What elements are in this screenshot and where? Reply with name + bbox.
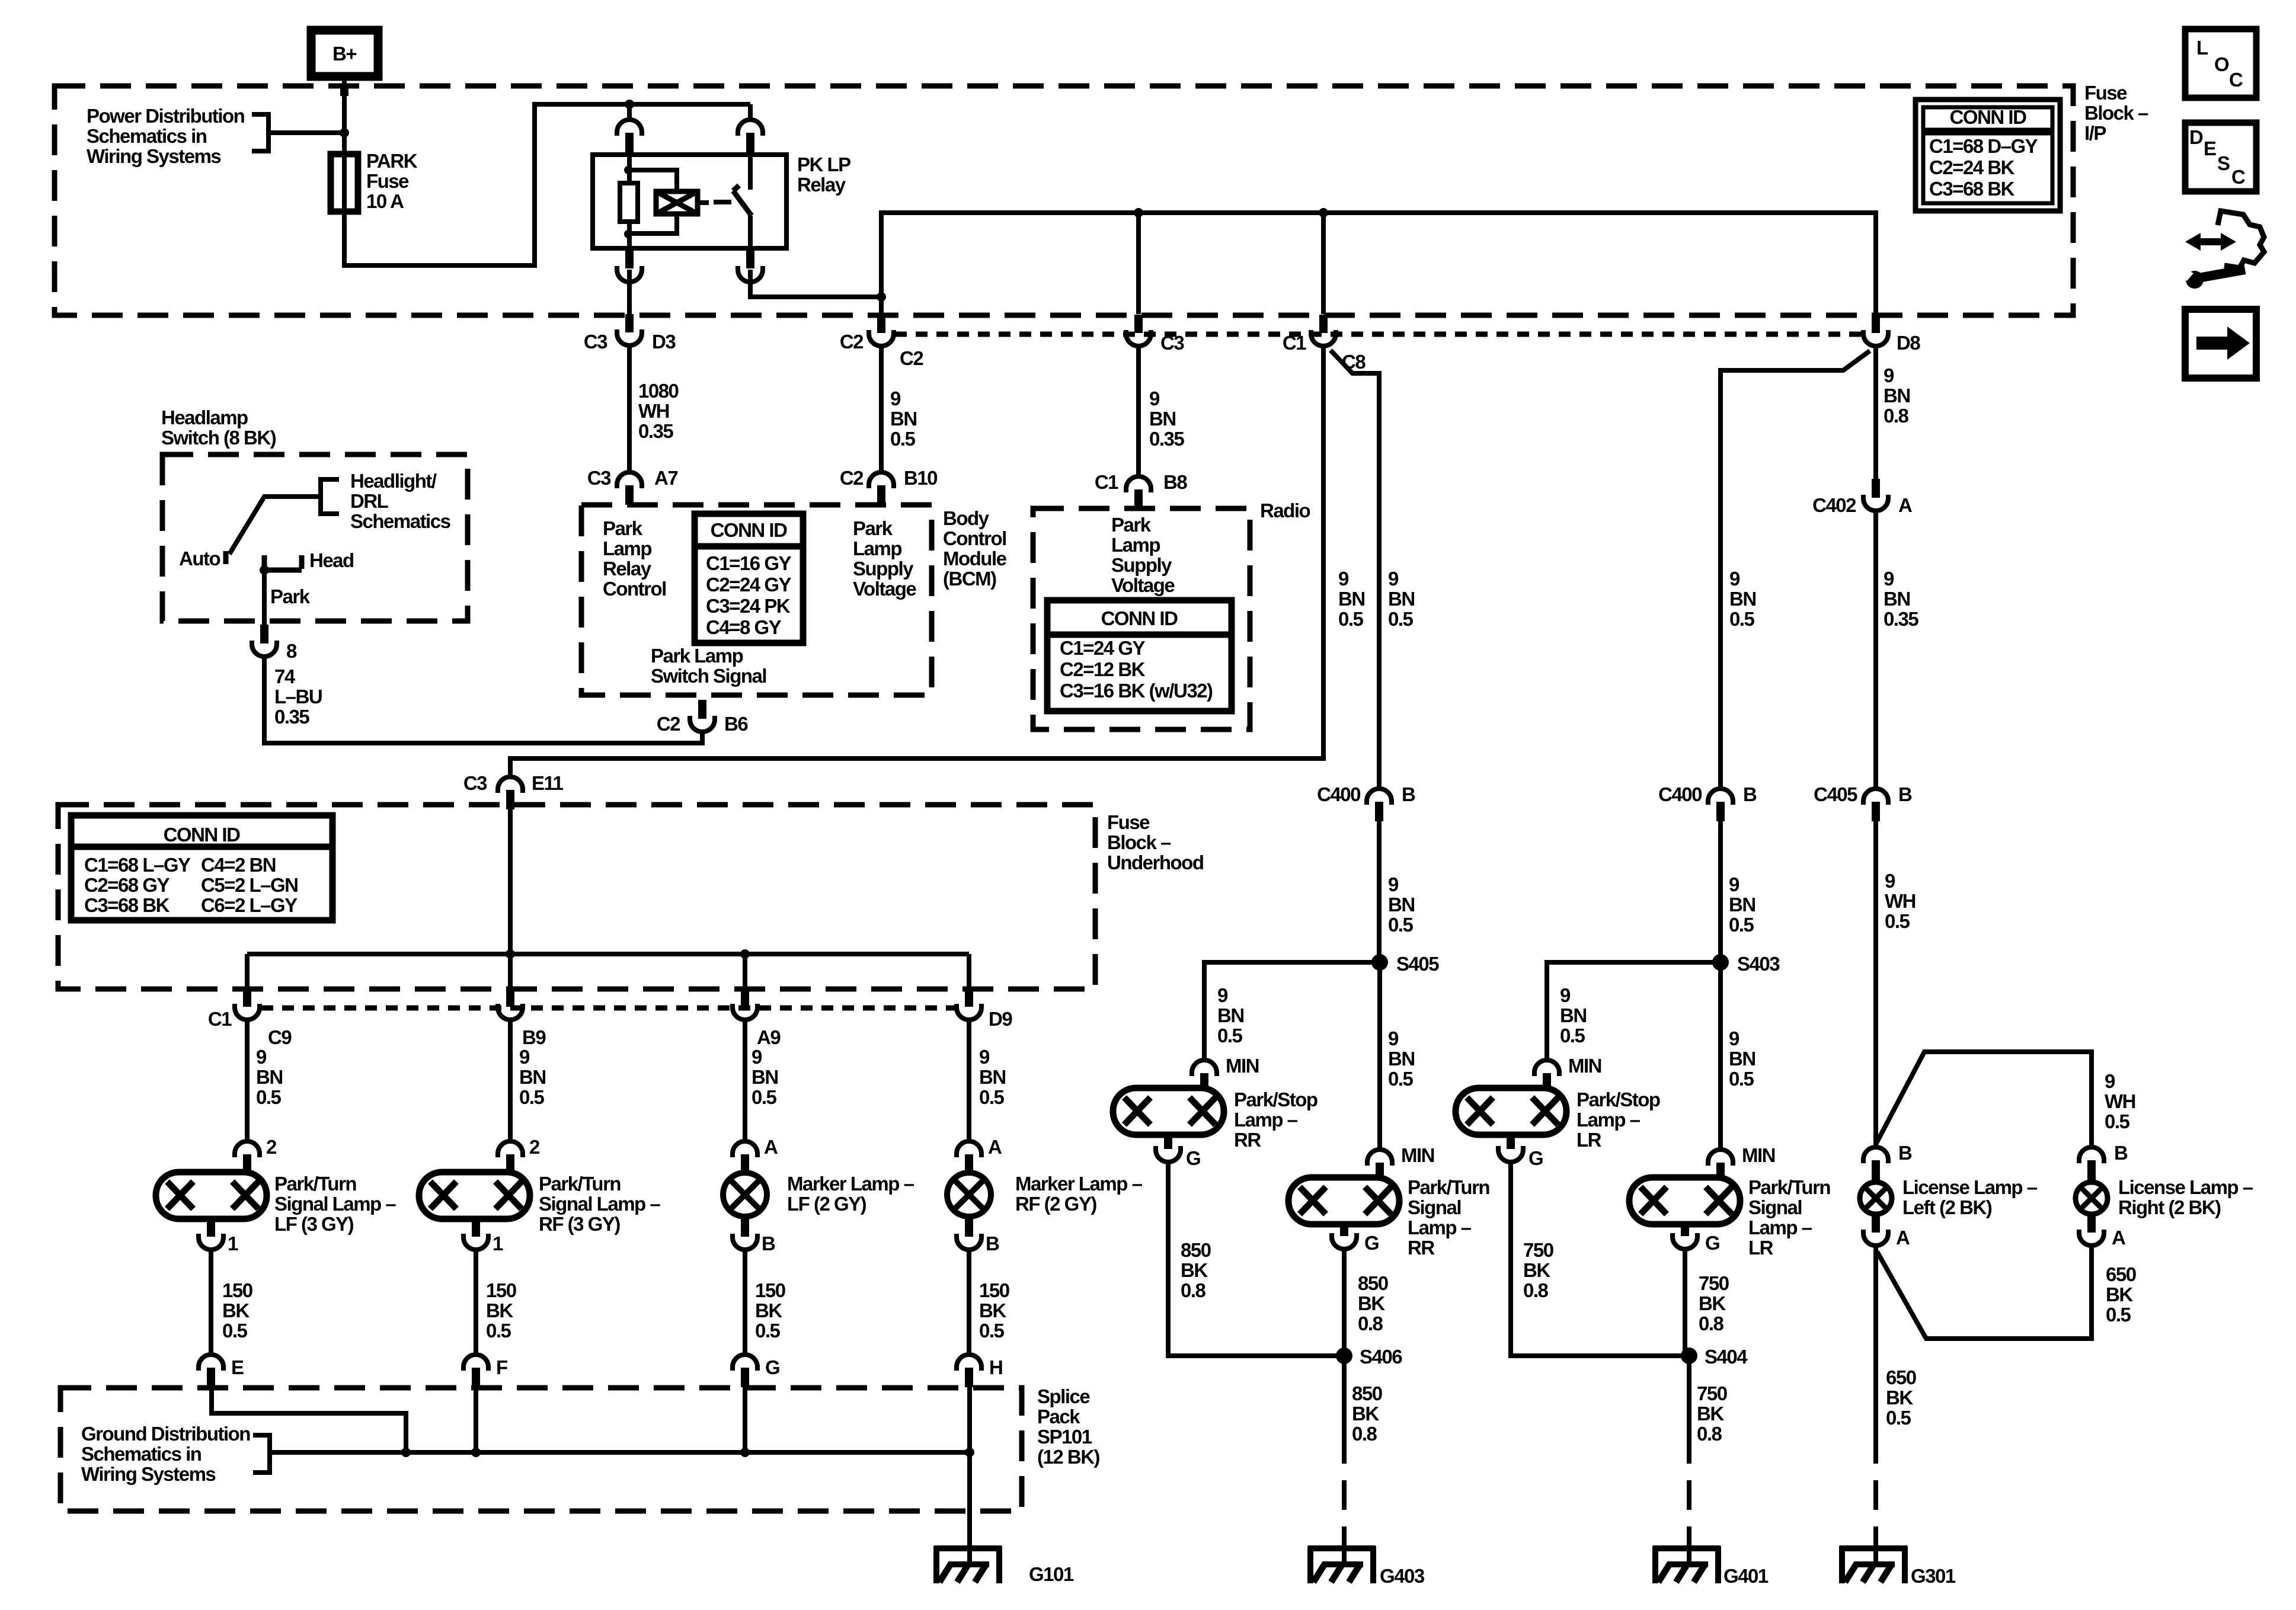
svg-text:9: 9 — [1884, 364, 1894, 386]
svg-text:C4=2 BN: C4=2 BN — [201, 854, 276, 876]
switch contacts of PK LP relay — [748, 155, 753, 190]
svg-text:9: 9 — [1388, 873, 1399, 895]
connector at relay pin 86 (coil supply) — [617, 120, 642, 136]
power distribution / fuse block I-P dashed box — [55, 86, 2073, 315]
svg-text:0.8: 0.8 — [1884, 405, 1909, 427]
svg-text:B6: B6 — [724, 713, 748, 735]
svg-text:Schematics in: Schematics in — [81, 1443, 202, 1465]
svg-text:BN: BN — [1729, 1048, 1755, 1070]
svg-text:F: F — [496, 1356, 507, 1378]
svg-text:Park/Stop: Park/Stop — [1234, 1089, 1318, 1110]
svg-text:0.5: 0.5 — [1388, 608, 1414, 630]
connector B of license lamp right — [2079, 1147, 2104, 1163]
resistor inside PK LP relay — [620, 183, 638, 222]
dotted connector face line of fuse block I/P bottom — [895, 332, 1862, 337]
svg-text:0.5: 0.5 — [256, 1086, 282, 1108]
svg-text:850: 850 — [1181, 1239, 1211, 1261]
splice pack SP101 dashed box — [60, 1388, 1022, 1511]
svg-text:C3: C3 — [1160, 332, 1184, 354]
wire 150 BK ground lead of park/turn signal lamp RF — [474, 1249, 478, 1355]
wire relay coil branch upper node — [627, 155, 632, 183]
svg-text:Fuse: Fuse — [366, 170, 409, 192]
svg-text:Park/Stop: Park/Stop — [1576, 1089, 1660, 1110]
svg-text:750: 750 — [1523, 1239, 1553, 1261]
svg-text:G401: G401 — [1723, 1565, 1769, 1587]
svg-text:BN: BN — [1560, 1004, 1587, 1026]
svg-text:Park: Park — [603, 517, 643, 539]
connector H at splice pack — [957, 1355, 981, 1371]
node splice S405 — [1371, 954, 1388, 971]
svg-text:BK: BK — [222, 1299, 250, 1321]
svg-text:9: 9 — [1729, 1028, 1739, 1049]
ground G403 — [1308, 1545, 1376, 1551]
svg-text:License Lamp –: License Lamp – — [1902, 1176, 2038, 1198]
svg-text:C3=68 BK: C3=68 BK — [1929, 178, 2015, 200]
wire drop to D9 — [967, 954, 971, 988]
svg-text:C1=68 L–GY: C1=68 L–GY — [84, 854, 191, 876]
svg-text:Switch Signal: Switch Signal — [651, 665, 766, 687]
svg-text:0.5: 0.5 — [1560, 1025, 1585, 1046]
svg-text:Park/Turn: Park/Turn — [539, 1173, 621, 1195]
svg-text:C2=68 GY: C2=68 GY — [84, 874, 170, 896]
svg-text:E: E — [231, 1356, 244, 1378]
svg-text:B8: B8 — [1163, 471, 1187, 493]
lamp marker lamp RF — [947, 1173, 991, 1217]
svg-text:Auto: Auto — [179, 548, 220, 569]
svg-text:CONN ID: CONN ID — [711, 519, 788, 541]
svg-text:Lamp –: Lamp – — [1234, 1109, 1298, 1131]
wire park signal to switch connector — [262, 570, 267, 625]
svg-text:DRL: DRL — [350, 490, 389, 512]
svg-text:0.5: 0.5 — [1729, 608, 1755, 630]
connector pin 2 of park/turn signal lamp RF — [498, 1141, 523, 1157]
svg-text:1: 1 — [228, 1233, 238, 1254]
svg-text:C9: C9 — [268, 1026, 292, 1048]
svg-text:850: 850 — [1352, 1382, 1382, 1404]
connector G at splice pack — [733, 1355, 757, 1371]
svg-text:9: 9 — [1388, 568, 1399, 590]
svg-text:Underhood: Underhood — [1107, 852, 1203, 873]
svg-text:D3: D3 — [652, 331, 676, 353]
svg-text:0.35: 0.35 — [1149, 428, 1184, 450]
wire C1 radio feed down and across to E11 — [510, 346, 1323, 777]
svg-text:Signal: Signal — [1748, 1196, 1802, 1218]
pin where B+ wire enters fuse block box — [340, 87, 348, 96]
svg-text:650: 650 — [1886, 1366, 1916, 1388]
svg-text:Park/Turn: Park/Turn — [274, 1173, 356, 1195]
svg-text:BN: BN — [1388, 588, 1415, 610]
wire park/turn LR ground lead to S404 — [1683, 1249, 1687, 1356]
wire B+ feed from battery through PARK fuse — [344, 76, 750, 265]
svg-text:Marker Lamp –: Marker Lamp – — [787, 1173, 914, 1195]
wire park/turn RR ground lead to S406 — [1342, 1249, 1347, 1356]
wire relay output to park lamp supply node — [750, 270, 881, 297]
node relay coil top junction — [624, 166, 632, 174]
connector pin A of marker lamp RF — [957, 1141, 981, 1157]
svg-text:H: H — [989, 1356, 1002, 1378]
coil symbol of PK LP relay (box with X) — [656, 191, 698, 214]
wire 750 BK from park/stop LR to S404 — [1511, 1161, 1689, 1356]
svg-text:C8: C8 — [1342, 351, 1366, 373]
svg-text:WH: WH — [1885, 890, 1916, 912]
wire 850 BK from park/stop RR to S406 — [1168, 1161, 1344, 1356]
svg-text:0.5: 0.5 — [752, 1086, 777, 1108]
wire 150 BK ground lead of marker lamp RF — [967, 1249, 971, 1355]
svg-text:S405: S405 — [1396, 953, 1439, 975]
svg-text:B: B — [1743, 783, 1757, 805]
svg-text:BK: BK — [1699, 1292, 1726, 1314]
bracket to ground distribution schematics — [253, 1435, 270, 1473]
svg-text:D9: D9 — [989, 1008, 1012, 1030]
svg-text:BN: BN — [1388, 894, 1415, 916]
svg-text:RF (3 GY): RF (3 GY) — [539, 1213, 620, 1235]
svg-text:Switch (8 BK): Switch (8 BK) — [161, 427, 276, 449]
svg-text:E11: E11 — [532, 772, 564, 794]
svg-text:Ground Distribution: Ground Distribution — [81, 1423, 250, 1445]
svg-text:BN: BN — [1884, 588, 1910, 610]
wire S-splice branch to park/stop lamp RR — [1204, 962, 1380, 1060]
wire C405 to license lamp left — [1873, 821, 1878, 1148]
svg-text:WH: WH — [2105, 1090, 2135, 1112]
svg-text:Schematics in: Schematics in — [87, 125, 207, 147]
wire drop to A9 — [743, 954, 747, 988]
relay PK LP box outline — [593, 155, 786, 248]
svg-text:C405: C405 — [1814, 783, 1857, 805]
connector A of license lamp right — [2087, 1214, 2096, 1233]
svg-text:RF (2 GY): RF (2 GY) — [1015, 1193, 1096, 1215]
svg-text:0.5: 0.5 — [1729, 1068, 1754, 1090]
svg-text:Lamp –: Lamp – — [1748, 1217, 1812, 1238]
bracket reference to power distribution schematics — [252, 114, 268, 151]
contact Auto — [223, 551, 229, 564]
connector A7 park lamp relay control input — [617, 472, 642, 488]
headlamp switch blade wire — [229, 497, 321, 554]
svg-text:C2=12 BK: C2=12 BK — [1060, 658, 1146, 680]
node bus tap to radio branch — [1319, 208, 1328, 217]
svg-text:2: 2 — [529, 1136, 540, 1158]
svg-text:C2=24 BK: C2=24 BK — [1929, 156, 2015, 178]
wire F lead into bus — [474, 1387, 478, 1452]
svg-text:C1: C1 — [1283, 332, 1306, 354]
svg-text:B9: B9 — [522, 1026, 546, 1048]
svg-text:G301: G301 — [1911, 1565, 1956, 1587]
node splice S406 — [1336, 1347, 1352, 1364]
svg-text:CONN ID: CONN ID — [1950, 106, 2027, 128]
node splice S403 — [1712, 954, 1729, 971]
wire C8 jog to C400 column — [1331, 350, 1379, 789]
wire 150 BK ground lead of marker lamp LF — [743, 1249, 747, 1355]
svg-text:Schematics: Schematics — [350, 510, 450, 532]
svg-text:Pack: Pack — [1037, 1406, 1080, 1427]
svg-text:0.35: 0.35 — [638, 420, 673, 442]
svg-text:A: A — [2112, 1227, 2125, 1249]
svg-text:MIN: MIN — [1401, 1144, 1434, 1166]
CONN ID table of fuse block I/P — [1916, 100, 2060, 211]
svg-text:BN: BN — [752, 1066, 778, 1088]
svg-text:9: 9 — [1388, 1028, 1399, 1049]
svg-text:9: 9 — [979, 1046, 990, 1068]
wire 74 L-BU from headlamp switch to BCM B6 — [264, 655, 702, 743]
connector B9 to RF park lamp — [506, 988, 514, 1007]
svg-text:BK: BK — [486, 1299, 513, 1321]
svg-text:BN: BN — [1884, 385, 1910, 406]
svg-text:0.8: 0.8 — [1352, 1423, 1377, 1445]
wire S404 to ground — [1687, 1356, 1691, 1564]
svg-text:Block –: Block – — [2084, 102, 2148, 124]
svg-text:C400: C400 — [1317, 783, 1360, 805]
svg-text:BK: BK — [1523, 1259, 1550, 1281]
svg-text:9: 9 — [752, 1046, 762, 1068]
svg-text:G: G — [1705, 1232, 1719, 1254]
wire C400 LR to splice S403 — [1718, 821, 1723, 962]
connector G of park/stop lamp RR — [1164, 1135, 1172, 1149]
connector pin 1 of park/turn signal lamp RF — [472, 1219, 480, 1237]
connector MIN of park/turn lamp LR — [1708, 1150, 1733, 1166]
node junction on relay supply wire at left pin — [625, 100, 634, 109]
svg-text:C2=24 GY: C2=24 GY — [706, 574, 791, 596]
svg-text:LF (2 GY): LF (2 GY) — [787, 1193, 866, 1215]
svg-text:MIN: MIN — [1742, 1144, 1775, 1166]
svg-text:Block –: Block – — [1107, 831, 1171, 853]
svg-text:C3=16 BK (w/U32): C3=16 BK (w/U32) — [1060, 680, 1213, 702]
connector C3 park lamp supply to radio — [1134, 315, 1143, 333]
svg-text:Supply: Supply — [853, 558, 914, 580]
svg-text:0.35: 0.35 — [1884, 608, 1918, 630]
node S junction of park lamp supply at fuse block — [877, 292, 886, 302]
svg-text:Voltage: Voltage — [1111, 574, 1175, 596]
svg-text:BN: BN — [890, 408, 917, 430]
bracket to Headlight/DRL schematics — [321, 479, 339, 514]
lamp park/stop RR — [1113, 1088, 1224, 1135]
svg-text:9: 9 — [1729, 873, 1739, 895]
node bus junction at E11 drop — [506, 949, 515, 959]
node bus tap to BCM supply branch — [1134, 208, 1143, 217]
svg-text:150: 150 — [222, 1279, 252, 1301]
svg-text:C: C — [2229, 69, 2243, 91]
svg-text:BN: BN — [1217, 1004, 1244, 1026]
lamp park/turn signal LR — [1629, 1177, 1740, 1224]
connector B of license lamp left — [1863, 1147, 1888, 1163]
svg-text:Lamp: Lamp — [603, 537, 651, 559]
svg-text:Headlight/: Headlight/ — [350, 470, 437, 492]
svg-text:0.8: 0.8 — [1523, 1279, 1549, 1301]
svg-text:8: 8 — [286, 640, 297, 662]
svg-text:C3=68 BK: C3=68 BK — [84, 894, 170, 916]
svg-text:150: 150 — [755, 1279, 785, 1301]
ground G301 — [1840, 1545, 1907, 1551]
icon service body outline — [2218, 211, 2264, 268]
svg-text:9: 9 — [256, 1046, 267, 1068]
svg-text:Splice: Splice — [1037, 1385, 1090, 1407]
connector E11 underhood fuse block input — [498, 777, 523, 793]
svg-text:Control: Control — [603, 578, 666, 600]
contact Park tick — [262, 555, 267, 570]
svg-text:LR: LR — [1576, 1129, 1602, 1151]
svg-text:C6=2 L–GY: C6=2 L–GY — [201, 894, 298, 916]
svg-text:1080: 1080 — [638, 380, 679, 402]
node bus junction F — [471, 1448, 481, 1457]
svg-text:9: 9 — [890, 388, 901, 409]
wire 9 BN feed to park/turn signal lamp RF — [508, 1020, 513, 1143]
wire C3 branch through connector — [1136, 213, 1141, 314]
svg-text:G: G — [1528, 1147, 1543, 1169]
svg-text:Control: Control — [943, 527, 1006, 549]
svg-text:D: D — [2189, 126, 2203, 148]
radio dashed box — [1033, 508, 1250, 729]
relay pin 85 connector (coil ground side) — [625, 248, 634, 268]
svg-text:S404: S404 — [1705, 1346, 1748, 1368]
svg-text:C1=16 GY: C1=16 GY — [706, 552, 791, 574]
svg-text:C3: C3 — [587, 467, 611, 489]
lamp park/turn signal lamp RF — [419, 1172, 530, 1219]
svg-text:L–BU: L–BU — [274, 686, 322, 708]
svg-text:L: L — [2196, 37, 2208, 59]
svg-text:Fuse: Fuse — [1107, 811, 1150, 833]
svg-text:Power Distribution: Power Distribution — [87, 105, 245, 127]
svg-text:BN: BN — [979, 1066, 1006, 1088]
svg-text:0.8: 0.8 — [1699, 1313, 1724, 1334]
svg-text:Relay: Relay — [603, 558, 652, 580]
connector G of park/stop lamp LR — [1507, 1135, 1515, 1149]
svg-text:A9: A9 — [757, 1026, 781, 1048]
svg-text:CONN ID: CONN ID — [164, 824, 241, 846]
svg-text:C1=68 D–GY: C1=68 D–GY — [1929, 135, 2038, 157]
lamp park/turn signal RR — [1288, 1177, 1399, 1224]
svg-text:Wiring Systems: Wiring Systems — [81, 1463, 215, 1485]
wire relay resistor bottom to box bottom — [627, 222, 632, 248]
connector G of park/turn lamp LR — [1681, 1224, 1689, 1236]
connector pin 2 of park/turn signal lamp LF — [235, 1141, 260, 1157]
connector B8 radio park lamp supply — [1126, 476, 1151, 492]
dotted connector face line of underhood block bottom — [261, 1006, 955, 1011]
svg-text:BK: BK — [1352, 1403, 1379, 1425]
svg-text:9: 9 — [1149, 388, 1160, 409]
svg-text:0.35: 0.35 — [274, 706, 309, 728]
svg-text:0.8: 0.8 — [1697, 1423, 1722, 1445]
relay pin 87 connector (switch output) — [746, 248, 754, 268]
svg-text:(BCM): (BCM) — [943, 568, 996, 590]
svg-text:BK: BK — [2106, 1283, 2133, 1305]
connector D8 fuse block output — [1872, 315, 1880, 333]
connector C1-C9 to LF park lamp — [243, 988, 251, 1007]
svg-text:I/P: I/P — [2084, 122, 2106, 144]
svg-text:Lamp: Lamp — [1111, 534, 1160, 556]
wire C1 branch through connector — [1321, 213, 1326, 314]
svg-text:A7: A7 — [654, 467, 677, 489]
connector at relay pin 30 (switch supply) — [738, 120, 763, 136]
svg-text:0.5: 0.5 — [1388, 914, 1414, 936]
svg-text:2: 2 — [266, 1136, 277, 1158]
wire license right ground joining left — [1877, 1246, 2092, 1339]
svg-text:B: B — [1402, 783, 1415, 805]
connector pin 1 of park/turn signal lamp LF — [207, 1219, 215, 1237]
node park output junction — [260, 565, 269, 575]
svg-text:Marker Lamp –: Marker Lamp – — [1015, 1173, 1143, 1195]
svg-text:BN: BN — [1338, 588, 1365, 610]
ground G101 — [934, 1545, 1002, 1551]
svg-text:LR: LR — [1748, 1237, 1774, 1259]
connector A9 to LF marker lamp — [741, 988, 749, 1007]
connector pin B of marker lamp LF — [741, 1216, 749, 1237]
wire 9 BN feed to marker lamp LF — [743, 1020, 747, 1143]
svg-text:Supply: Supply — [1111, 554, 1172, 576]
wire 150 BK ground lead of park/turn signal lamp LF — [209, 1249, 213, 1355]
ground G401 — [1653, 1545, 1721, 1551]
svg-text:Park/Turn: Park/Turn — [1748, 1176, 1830, 1198]
svg-text:A: A — [988, 1136, 1002, 1158]
svg-text:C5=2 L–GN: C5=2 L–GN — [201, 874, 298, 896]
connector B10 park lamp supply voltage input — [869, 472, 894, 488]
svg-text:E: E — [2204, 137, 2216, 159]
wire branch to license lamp right — [1876, 1052, 2092, 1148]
node junction of power-distribution tap on B+ wire — [340, 128, 349, 137]
svg-text:BN: BN — [1149, 408, 1176, 430]
connector MIN of park/turn lamp RR — [1367, 1150, 1392, 1166]
svg-text:C1=24 GY: C1=24 GY — [1060, 637, 1145, 659]
wire D3 to BCM A7 — [627, 345, 632, 474]
svg-text:S406: S406 — [1360, 1346, 1402, 1368]
wire D8 output down to C402 — [1873, 348, 1878, 479]
wire S-splice branch to park/stop lamp LR — [1547, 962, 1721, 1060]
svg-text:G: G — [1364, 1232, 1379, 1254]
svg-text:Relay: Relay — [797, 174, 846, 196]
svg-text:Fuse: Fuse — [2084, 82, 2127, 104]
svg-text:S: S — [2217, 152, 2230, 174]
svg-text:B+: B+ — [332, 43, 356, 65]
contact Head and wire to park node — [264, 555, 302, 570]
svg-text:RR: RR — [1408, 1237, 1435, 1259]
node bus junction E — [401, 1448, 411, 1457]
svg-text:Signal Lamp –: Signal Lamp – — [539, 1193, 660, 1215]
svg-text:BK: BK — [1181, 1259, 1208, 1281]
svg-text:G: G — [765, 1356, 779, 1378]
svg-text:A: A — [764, 1136, 778, 1158]
svg-text:C2: C2 — [840, 467, 864, 489]
node splice S404 — [1681, 1347, 1697, 1364]
fuse PARK 10A — [331, 154, 358, 212]
CONN ID table of radio connectors — [1047, 600, 1232, 711]
battery terminal B+ box — [311, 30, 378, 76]
svg-text:0.8: 0.8 — [1181, 1279, 1206, 1301]
body control module dashed box — [581, 505, 932, 695]
lamp park/stop LR — [1456, 1088, 1566, 1135]
svg-text:B: B — [1898, 1142, 1912, 1164]
connector pin B of marker lamp RF — [965, 1216, 973, 1237]
svg-text:74: 74 — [274, 665, 296, 687]
icon LOC box — [2185, 29, 2256, 98]
svg-text:BK: BK — [1358, 1292, 1385, 1314]
svg-text:(12 BK): (12 BK) — [1037, 1446, 1100, 1468]
svg-text:C3: C3 — [584, 331, 607, 353]
svg-text:9: 9 — [1729, 568, 1740, 590]
svg-text:BK: BK — [1697, 1403, 1724, 1425]
svg-text:C1: C1 — [1095, 471, 1118, 493]
lamp license right — [2076, 1182, 2108, 1214]
svg-text:Lamp: Lamp — [853, 537, 901, 559]
svg-text:Park/Turn: Park/Turn — [1408, 1176, 1489, 1198]
connector A of license lamp left — [1872, 1214, 1880, 1233]
svg-text:0.5: 0.5 — [222, 1320, 248, 1342]
connector G of park/turn lamp RR — [1340, 1224, 1348, 1236]
svg-text:Park Lamp: Park Lamp — [651, 645, 743, 667]
svg-text:0.5: 0.5 — [2105, 1110, 2130, 1132]
svg-text:0.5: 0.5 — [1338, 608, 1364, 630]
wire C2 to BCM B10 — [879, 345, 884, 474]
connector C1-C8 fuse block output — [1319, 315, 1328, 333]
connector pin A of marker lamp LF — [733, 1141, 757, 1157]
svg-text:BN: BN — [519, 1066, 546, 1088]
svg-text:9: 9 — [1217, 984, 1228, 1006]
